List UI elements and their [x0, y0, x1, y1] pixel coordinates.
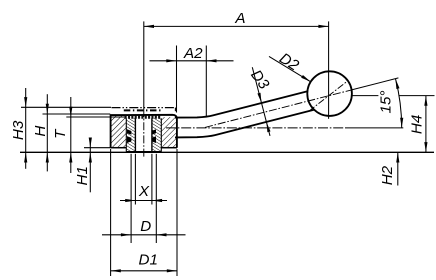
phantom raised serration [124, 109, 162, 111]
washer hatch right wall [152, 118, 161, 151]
dim A line [144, 25, 329, 27]
thread teeth right [152, 129, 156, 134]
hub bottom edges [111, 147, 127, 149]
dim T line [70, 97, 72, 173]
dim H3 extension top [21, 106, 111, 108]
svg-text:H2: H2 [379, 165, 396, 185]
dim X extensions [134, 154, 136, 205]
hub hatch right wall [161, 117, 177, 148]
axis extension 15 deg line [352, 78, 399, 90]
dim H line [46, 94, 48, 171]
ball knob [307, 71, 352, 116]
washer bottom [126, 151, 161, 153]
dim T extension top [66, 116, 125, 118]
bore lines [134, 118, 136, 151]
wire baseline surface [20, 151, 434, 153]
dim A2 line [150, 60, 234, 62]
svg-text:D: D [140, 218, 151, 235]
ball diagonal centerline [309, 80, 348, 111]
dim A extension right [328, 21, 330, 118]
svg-text:D1: D1 [138, 252, 157, 269]
dim D2 leader [269, 56, 311, 81]
thread teeth left [127, 129, 131, 134]
dim H4 extension top [352, 95, 378, 97]
dim A2 extension left [176, 46, 178, 113]
phantom stub right [174, 108, 176, 112]
part boundary washer/hub [125, 118, 127, 151]
dim H4 line [425, 96, 427, 153]
horizontal leg extension [345, 127, 403, 129]
svg-text:X: X [138, 183, 150, 200]
svg-text:H4: H4 [409, 115, 426, 134]
dim D3 line [252, 67, 270, 136]
dim A extension left [143, 21, 145, 109]
lever arm outline [175, 91, 309, 118]
hub outline [111, 115, 177, 148]
arm axis centerline [205, 90, 352, 128]
svg-text:A: A [234, 10, 245, 27]
serration row [125, 115, 162, 118]
hub hatch left wall [111, 115, 127, 148]
dim X line [120, 200, 167, 202]
dim A2 extension right [205, 46, 207, 117]
dim 15deg arc [396, 79, 402, 128]
svg-text:H1: H1 [74, 166, 91, 185]
hub centerline [143, 109, 145, 158]
dim D1 extensions [110, 149, 112, 276]
dim H3 line [25, 88, 27, 169]
dim H2 line [397, 152, 399, 185]
svg-text:H3: H3 [10, 120, 27, 140]
washer hatch left wall [126, 118, 135, 151]
dim D1 line [111, 270, 177, 272]
horizontal leg centerline [166, 127, 345, 129]
svg-text:15°: 15° [377, 91, 394, 114]
dim H1 line [89, 139, 91, 193]
dim D line [102, 234, 186, 236]
svg-text:A2: A2 [183, 45, 203, 62]
dim H4 extension top right [399, 95, 435, 97]
dim H1 extension top [84, 147, 111, 149]
dim D extensions [130, 154, 132, 243]
dim H extension top [43, 113, 111, 115]
svg-text:H: H [32, 126, 49, 137]
phantom raised lever top [112, 107, 176, 109]
